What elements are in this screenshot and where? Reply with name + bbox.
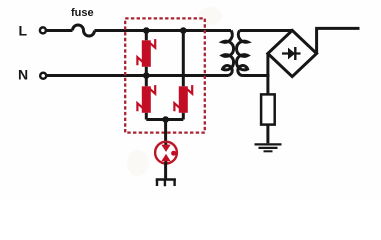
wire secondary bottom (243, 74, 270, 77)
wire RV2 to bus (145, 113, 148, 120)
earth bar 2 (259, 147, 278, 149)
diode D1 cathode bar (294, 47, 296, 60)
node L-1 (143, 27, 150, 34)
wire L left (47, 29, 73, 32)
varistor RV1 (137, 39, 155, 67)
svg-text:L: L (19, 23, 28, 39)
earth rake teeth (157, 180, 175, 187)
node bus (162, 116, 169, 123)
diode D1 triangle (288, 48, 295, 60)
resistor R1 (261, 94, 275, 124)
svg-text:fuse: fuse (71, 7, 94, 19)
wire bridge left to resistor (266, 54, 269, 95)
earth bar 3 (264, 150, 273, 152)
wire L-2 to RV3 (182, 31, 185, 87)
bridge rectifier diamond (268, 30, 317, 76)
varistor RV3 (174, 85, 192, 113)
SPD enclosure dashed box (125, 18, 205, 132)
wire resistor to earth (266, 125, 269, 144)
bus wire bottom (146, 118, 183, 121)
wire N-1 to RV2 (145, 76, 148, 87)
transformer T1 secondary coil (237, 31, 248, 76)
wire RV1 to N (145, 67, 148, 76)
earth rake bar (156, 178, 176, 180)
transformer T1 primary coil (223, 31, 234, 76)
GDT gas dot (171, 151, 176, 156)
node N-1 (143, 72, 150, 79)
wire bridge output (317, 28, 360, 53)
fuse F1 (73, 25, 95, 36)
terminal L (40, 27, 46, 33)
wire L-1 to RV1 (145, 31, 148, 41)
varistor RV2 (137, 85, 155, 113)
wire secondary top to bridge (240, 29, 293, 32)
gas discharge tube GDT ring (155, 142, 177, 164)
terminal N (40, 73, 46, 79)
GDT internal leads (164, 143, 167, 165)
GDT electrode bottom (161, 154, 170, 161)
faint paper smudge left of GDT (127, 150, 149, 176)
diode D1 lead line (282, 52, 301, 54)
wire L to transformer (95, 29, 232, 32)
earth bar 1 (255, 143, 282, 145)
node L-2 (180, 27, 187, 34)
wire GDT to earth (164, 164, 167, 180)
wire RV3 to bus (182, 113, 185, 120)
faint paper smudge top (198, 7, 222, 25)
wire bus to GDT (164, 120, 167, 143)
wire N (47, 74, 228, 77)
svg-text:N: N (18, 67, 28, 83)
GDT electrode top (161, 145, 170, 152)
